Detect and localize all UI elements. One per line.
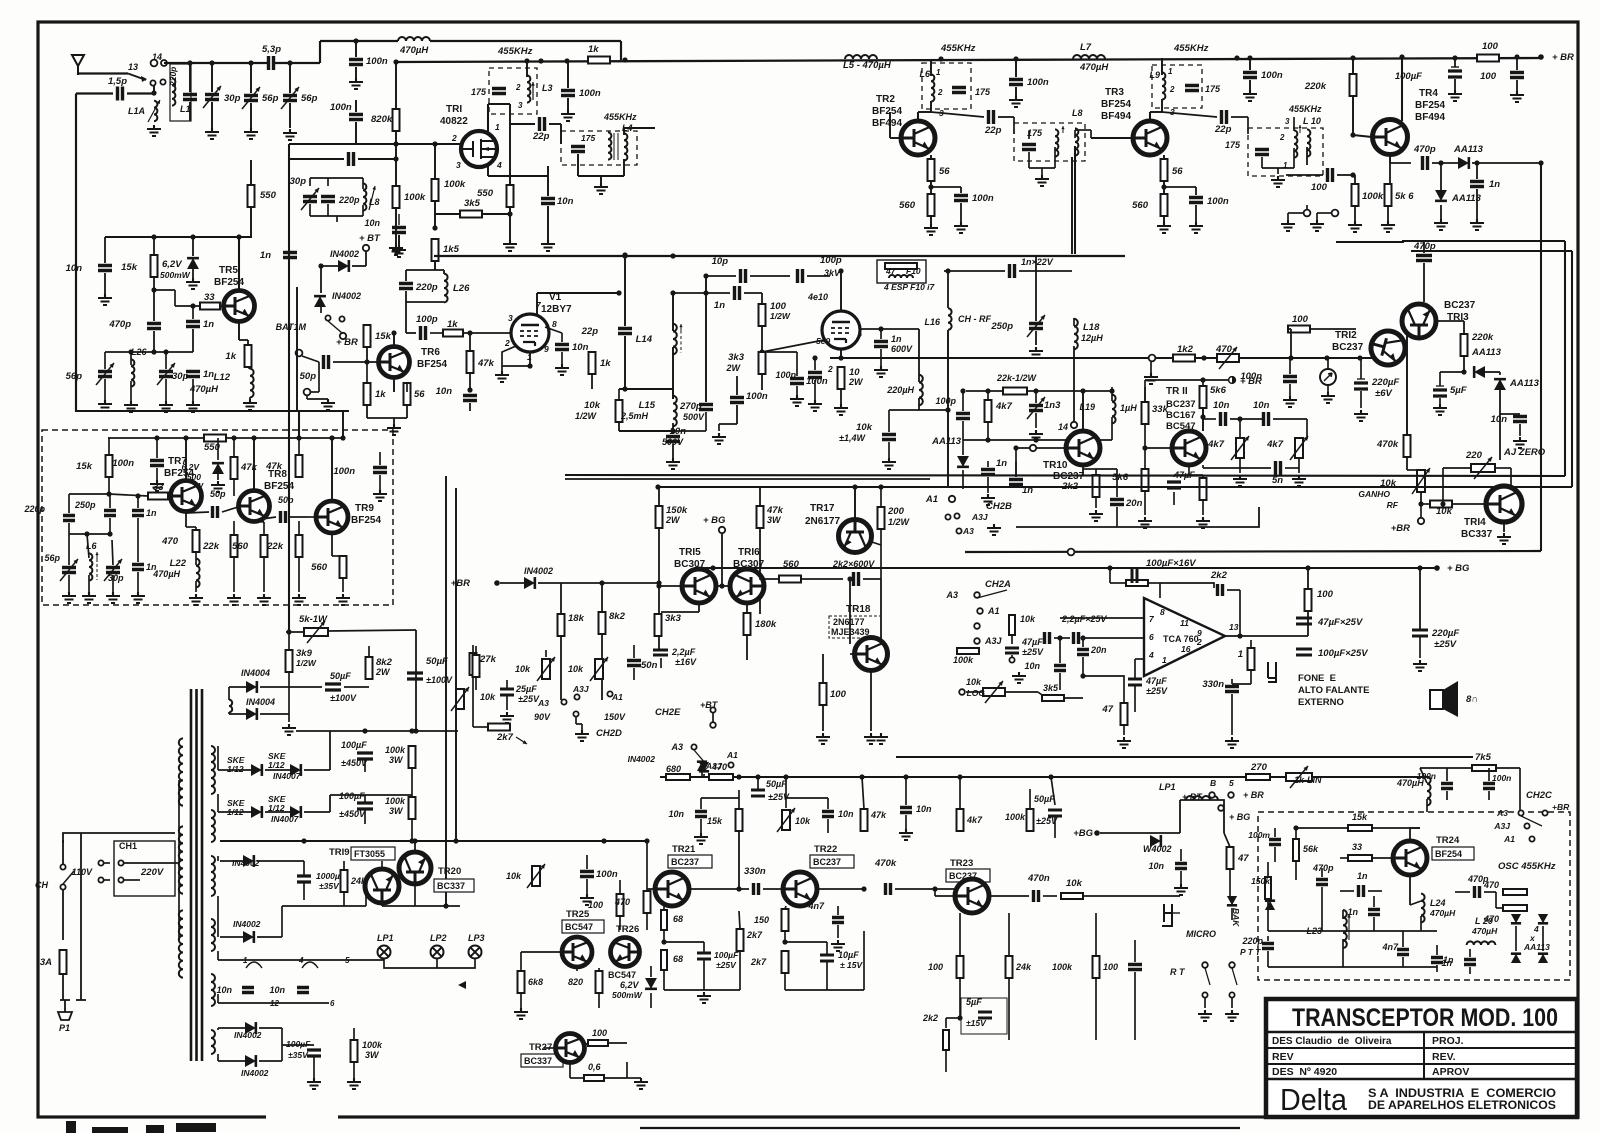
wire — [307, 398, 328, 400]
wire — [321, 265, 338, 267]
wire — [336, 216, 338, 222]
ground TR14 — [1497, 533, 1511, 544]
wire — [796, 352, 798, 376]
wire — [1144, 380, 1146, 402]
wire — [1499, 390, 1501, 414]
svg-text:10n: 10n — [1148, 861, 1164, 871]
svg-text:90V: 90V — [534, 712, 551, 722]
svg-text:L7: L7 — [1080, 42, 1092, 53]
svg-text:1n: 1n — [996, 458, 1007, 469]
ground 100k — [389, 244, 403, 255]
capacitor 100n box2 — [373, 468, 387, 473]
wire — [763, 888, 784, 890]
wire — [328, 630, 416, 631]
junction — [1247, 55, 1252, 60]
transformer secondary fil a — [211, 919, 215, 951]
resistor 1k5 — [432, 239, 439, 261]
wire — [108, 437, 109, 439]
wire — [837, 906, 839, 915]
ground L26l — [124, 401, 138, 412]
svg-text:IN4002: IN4002 — [233, 919, 261, 929]
wire — [785, 989, 864, 991]
contact — [1304, 210, 1311, 217]
wire — [960, 187, 962, 193]
wire — [434, 201, 436, 228]
wire — [1510, 468, 1512, 490]
wire — [260, 686, 322, 688]
svg-text:500V: 500V — [683, 412, 705, 422]
svg-text:W4002: W4002 — [1143, 844, 1172, 854]
wire — [1225, 635, 1240, 637]
wire — [1307, 611, 1309, 636]
resistor 470k — [1404, 435, 1411, 457]
wire — [320, 266, 322, 293]
wire rail y479 — [565, 478, 930, 480]
wire nl row — [963, 439, 1112, 441]
junction — [782, 939, 787, 944]
wire — [673, 430, 706, 432]
capacitor 5,3p — [269, 56, 274, 70]
wire — [1202, 475, 1204, 478]
svg-text:BAT1M: BAT1M — [276, 322, 307, 332]
wire — [1442, 468, 1444, 504]
wire — [1293, 117, 1295, 131]
potentiometer 10k d1 — [542, 659, 550, 679]
svg-text:220k: 220k — [1304, 81, 1327, 92]
capacitor 10n nl a — [1221, 412, 1226, 426]
resistor 24k b23 — [1006, 956, 1013, 978]
capacitor 1n nl1 — [981, 470, 995, 475]
wire — [757, 777, 759, 790]
svg-text:BC337: BC337 — [1461, 529, 1493, 540]
title block divider under title — [1266, 1031, 1577, 1034]
inductor L8b — [363, 183, 366, 210]
wire receiver box bottom — [965, 551, 1541, 552]
wire feed x446 — [445, 476, 447, 906]
wire — [586, 855, 588, 869]
svg-text:1n: 1n — [203, 319, 214, 330]
svg-text:+ BG: + BG — [703, 515, 726, 526]
wire — [239, 339, 248, 341]
wire — [1321, 868, 1323, 877]
wire — [1232, 683, 1251, 685]
ground 1k2 — [1144, 373, 1158, 384]
variable capacitor 30p box — [106, 568, 120, 573]
wire — [1229, 869, 1231, 896]
wire — [475, 677, 477, 690]
junction — [644, 838, 649, 843]
resistor 100 b23 — [957, 956, 964, 978]
wire — [1144, 424, 1146, 448]
transistor TR15 — [682, 569, 716, 603]
junction — [301, 838, 306, 843]
wire — [186, 512, 209, 513]
capacitor 100uF 25V b — [697, 953, 711, 959]
wire — [537, 292, 619, 294]
svg-text:TR17: TR17 — [810, 503, 835, 514]
wire — [987, 422, 989, 440]
svg-text:2N6177: 2N6177 — [833, 617, 865, 627]
svg-text:10n: 10n — [1491, 414, 1508, 425]
capacitor 100p nl — [956, 414, 970, 419]
wire — [69, 533, 110, 535]
microphone jack — [1162, 904, 1172, 926]
wire — [104, 879, 110, 881]
resistor 550 a — [248, 185, 255, 207]
svg-text:100: 100 — [1317, 589, 1334, 600]
wire — [1285, 467, 1299, 469]
svg-text:10n: 10n — [1024, 661, 1040, 671]
contact base line — [1149, 355, 1156, 362]
svg-text:470k: 470k — [874, 858, 897, 869]
wire — [931, 112, 984, 117]
wire — [229, 686, 246, 688]
svg-text:1n: 1n — [146, 508, 157, 518]
svg-text:15k: 15k — [121, 262, 138, 273]
variable capacitor 1n3 — [1029, 406, 1043, 411]
wire nl loop — [1016, 507, 1259, 527]
svg-text:AA113: AA113 — [1453, 144, 1484, 155]
contact — [1202, 992, 1207, 997]
wire — [137, 572, 139, 592]
svg-text:8: 8 — [1160, 607, 1165, 617]
svg-text:47µF: 47µF — [1145, 676, 1167, 686]
wire — [366, 347, 368, 362]
resistor 1k2 — [1173, 355, 1195, 362]
transformer primary a — [179, 738, 183, 805]
capacitor 470p osc2 — [1475, 886, 1480, 898]
switch CH2A arm — [977, 590, 1007, 598]
ground 5uF — [1433, 404, 1447, 415]
wire — [395, 62, 397, 109]
diode AA113 e3 — [1511, 954, 1521, 963]
svg-text:9: 9 — [544, 344, 549, 354]
resistor 10k tr14 — [1430, 501, 1452, 508]
svg-text:50µF: 50µF — [426, 656, 448, 667]
wire — [1203, 467, 1271, 469]
capacitor 100 c23 — [1128, 965, 1142, 970]
svg-text:100: 100 — [1480, 71, 1497, 82]
wire — [254, 521, 264, 522]
svg-text:10µF: 10µF — [838, 950, 859, 960]
wire — [1111, 417, 1113, 440]
contact — [956, 528, 961, 533]
wire — [945, 1018, 947, 1028]
svg-text:4k7: 4k7 — [966, 815, 983, 825]
svg-text:470p: 470p — [1413, 144, 1436, 155]
wire — [746, 635, 748, 660]
wire — [930, 181, 932, 224]
resistor 10k b23 — [1061, 893, 1083, 899]
capacitor 100uF 450V a — [357, 753, 373, 759]
wire — [807, 275, 830, 277]
resistor 100 tr27 — [588, 1040, 608, 1046]
svg-text:15k: 15k — [707, 816, 723, 826]
wire — [987, 461, 989, 467]
wire — [406, 332, 416, 334]
svg-text:100µF×16V: 100µF×16V — [1146, 558, 1196, 569]
svg-text:10n: 10n — [269, 985, 285, 995]
svg-text:22k-1/2W: 22k-1/2W — [996, 373, 1038, 383]
wire — [185, 438, 187, 481]
wire — [1516, 57, 1518, 70]
wire — [880, 529, 882, 560]
wire — [930, 101, 932, 112]
inductor LP1 relay — [1186, 796, 1218, 800]
svg-text:TRI: TRI — [446, 104, 462, 115]
svg-text:100k: 100k — [1362, 191, 1384, 202]
svg-text:±16V: ±16V — [675, 657, 697, 667]
wire — [68, 523, 70, 534]
wire TR5 bus — [105, 236, 252, 238]
variable capacitor 56p a — [244, 96, 258, 101]
op-amp TCA760 — [1144, 598, 1225, 676]
wire — [1250, 670, 1252, 684]
diode AA113 e1 — [1511, 914, 1521, 923]
wire — [850, 653, 854, 655]
wire — [1083, 895, 1180, 897]
wire — [880, 349, 882, 366]
junction — [812, 355, 817, 360]
svg-text:CH2B: CH2B — [986, 501, 1012, 512]
junction — [1201, 355, 1206, 360]
resistor 2k7 d — [488, 724, 510, 731]
wire — [1267, 862, 1269, 877]
wire — [1082, 657, 1084, 676]
resistor 8k2 2W — [366, 657, 373, 679]
junction — [1357, 355, 1362, 360]
junction — [1452, 55, 1457, 60]
wire — [251, 236, 252, 238]
wire V2 plate — [840, 271, 842, 311]
svg-text:470: 470 — [161, 536, 179, 547]
svg-text:A3: A3 — [670, 742, 683, 752]
svg-text:BC337: BC337 — [437, 881, 465, 891]
wire — [353, 1028, 355, 1040]
label box BC237 21 — [668, 855, 712, 868]
svg-text:10n: 10n — [216, 985, 232, 995]
potentiometer 10k LOG — [983, 688, 1005, 696]
svg-text:470: 470 — [614, 897, 630, 907]
wire — [576, 967, 578, 971]
capacitor 22p b — [989, 110, 994, 124]
svg-text:6: 6 — [1149, 632, 1154, 642]
capacitor 100n tr12 — [1283, 377, 1297, 382]
diode AA113 e — [957, 456, 969, 467]
junction — [163, 349, 168, 354]
wire — [233, 479, 235, 496]
wire — [1231, 679, 1233, 684]
resistor 8k2 — [599, 612, 606, 634]
contact — [974, 592, 980, 598]
ground 4n7 — [831, 940, 845, 951]
wire — [931, 186, 961, 188]
svg-text:56k: 56k — [1303, 844, 1319, 854]
junction — [1514, 54, 1519, 59]
contact — [561, 699, 566, 704]
resistor 22k box2 — [296, 535, 303, 557]
wire — [560, 124, 562, 144]
wire — [109, 494, 148, 496]
terminal +BR drv — [494, 580, 500, 586]
junction — [364, 359, 369, 364]
junction — [670, 253, 675, 258]
capacitor 100p 3kV — [798, 269, 803, 283]
svg-text:1k: 1k — [588, 44, 599, 55]
svg-text:+ BR: + BR — [1240, 376, 1262, 387]
switch S1 wafer — [128, 74, 146, 81]
svg-text:PROJ.: PROJ. — [1432, 1035, 1464, 1047]
resistor 100k b23 — [1027, 809, 1034, 831]
potentiometer 10k d2 — [590, 657, 608, 681]
wire — [784, 931, 786, 940]
wire — [220, 860, 243, 862]
diode IN4002 b — [314, 296, 326, 307]
diode IN4002 ps1 — [243, 855, 254, 867]
wire — [1231, 116, 1248, 118]
resistor 150k 2W — [656, 506, 663, 528]
svg-text:10k: 10k — [568, 664, 584, 674]
switch BAT1M arm — [328, 321, 342, 333]
wire — [233, 438, 235, 457]
wire — [663, 906, 665, 910]
svg-text:4k7: 4k7 — [1207, 439, 1225, 450]
junction — [852, 484, 857, 489]
wire — [863, 578, 881, 580]
svg-text:BC237: BC237 — [1166, 399, 1196, 410]
capacitor 1n osc4 — [1464, 960, 1476, 965]
resistor 18k — [558, 614, 565, 636]
svg-text:FONE E: FONE E — [1298, 673, 1336, 684]
junction — [413, 728, 418, 733]
wire — [405, 270, 407, 281]
ground 10k14W — [882, 458, 896, 469]
wire TR1 drain — [487, 104, 489, 132]
wire — [1499, 372, 1501, 375]
wire — [604, 1077, 627, 1079]
wire — [569, 1063, 571, 1078]
wire — [309, 204, 311, 216]
svg-text:1n: 1n — [714, 300, 725, 311]
svg-text:±25V: ±25V — [1146, 686, 1168, 696]
svg-text:+BR: +BR — [451, 578, 470, 589]
capacitor 47uF 25V b — [1296, 618, 1312, 624]
wire — [88, 575, 90, 592]
ground 30p box — [106, 592, 120, 603]
svg-text:180k: 180k — [755, 619, 777, 630]
wire — [415, 905, 460, 907]
wire — [1202, 380, 1204, 386]
svg-text:15k: 15k — [375, 331, 392, 342]
wire — [249, 397, 251, 399]
wire — [218, 959, 243, 961]
junction — [878, 484, 883, 489]
svg-text:+ BT: + BT — [359, 233, 381, 244]
wire — [646, 841, 648, 891]
wire — [87, 534, 89, 558]
junction — [938, 56, 943, 61]
wire — [286, 631, 304, 633]
wire — [889, 409, 948, 411]
wire — [217, 896, 219, 937]
svg-text:22p: 22p — [984, 125, 1002, 136]
junction — [183, 435, 188, 440]
transistor TR27 — [556, 1034, 585, 1063]
potentiometer 1k-LIN — [1286, 773, 1312, 781]
svg-text:56: 56 — [939, 166, 950, 177]
wire — [487, 166, 489, 176]
wire — [112, 575, 114, 592]
junction — [231, 435, 236, 440]
ground 100byp — [1510, 91, 1524, 102]
ground zener box — [211, 481, 225, 492]
svg-text:2W: 2W — [848, 377, 864, 387]
svg-text:470p: 470p — [108, 319, 131, 330]
svg-text:220p: 220p — [415, 282, 438, 293]
wire — [718, 424, 720, 431]
capacitor 100n f — [1243, 73, 1257, 78]
wire — [1203, 418, 1216, 420]
wire — [822, 654, 824, 683]
svg-text:LP2: LP2 — [430, 933, 447, 943]
potentiometer 470 — [1219, 347, 1237, 369]
svg-text:220µH: 220µH — [886, 385, 914, 395]
capacitor 10n fil a — [242, 988, 254, 993]
inductor L8 sec — [1075, 128, 1078, 155]
svg-text:EXTERNO: EXTERNO — [1298, 697, 1344, 708]
wire — [598, 968, 600, 971]
svg-text:LP3: LP3 — [468, 933, 485, 943]
svg-text:100n: 100n — [333, 466, 355, 477]
contact TR10 base — [1030, 445, 1036, 451]
svg-text:CH2C: CH2C — [1526, 790, 1552, 801]
wire TR1 gate — [289, 143, 461, 145]
wire — [435, 213, 460, 215]
diode AA113 c — [1474, 366, 1485, 378]
wire — [243, 959, 384, 961]
contact — [1218, 805, 1224, 811]
wire — [265, 769, 290, 771]
resistor 27k b — [473, 655, 480, 677]
wire — [108, 437, 204, 439]
wire — [581, 724, 583, 730]
wire — [248, 367, 250, 369]
transistor TR18 — [855, 638, 888, 671]
junction — [599, 580, 604, 585]
svg-text:3k5: 3k5 — [1043, 683, 1059, 693]
wire — [1420, 767, 1472, 769]
wire — [393, 418, 395, 424]
wire — [1402, 957, 1404, 967]
svg-text:2k7: 2k7 — [750, 957, 767, 967]
ground 100k det — [1348, 221, 1362, 232]
svg-text:20n: 20n — [1125, 498, 1143, 509]
wire — [290, 516, 308, 518]
svg-text:56p: 56p — [44, 553, 60, 563]
wire — [1075, 129, 1091, 131]
resistor 100k c23 — [1093, 956, 1100, 978]
capacitor 470p tr5 — [147, 324, 161, 329]
wire — [998, 116, 1014, 118]
resistor 1k tr6e — [364, 383, 371, 405]
wire — [156, 468, 158, 480]
resistor 7k5 — [1472, 765, 1496, 771]
ground 10nV1 — [555, 364, 569, 375]
wire — [411, 768, 413, 795]
wire — [192, 237, 194, 256]
svg-text:24k: 24k — [350, 876, 367, 886]
capacitor 100p tr6 — [421, 326, 426, 340]
